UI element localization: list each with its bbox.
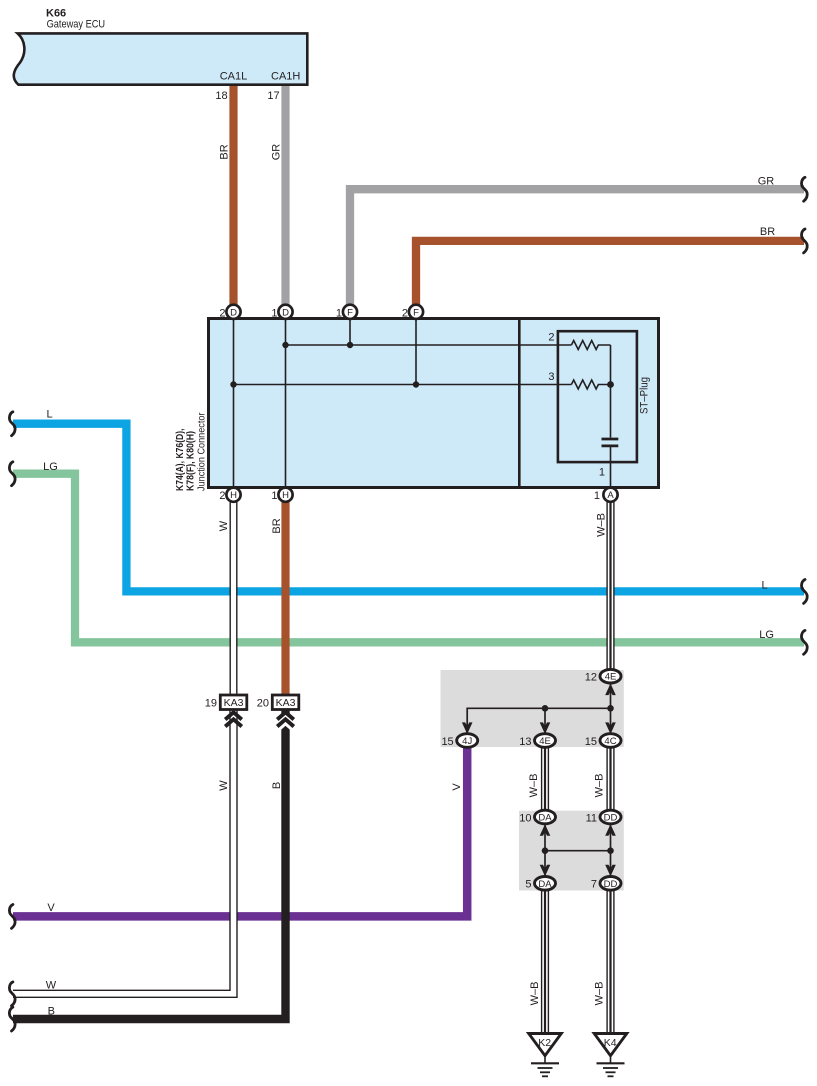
ST-Plug inner box	[558, 331, 637, 462]
svg-text:2: 2	[402, 307, 408, 319]
svg-text:4C: 4C	[604, 736, 616, 747]
off-page end LG right	[801, 630, 807, 654]
wire resistor outputs to capacitor	[610, 345, 612, 438]
svg-text:KA3: KA3	[276, 697, 296, 709]
pin 1(A) bottom	[603, 488, 617, 502]
svg-text:V: V	[451, 783, 463, 791]
junction dot gray block 1 (x=545)	[542, 705, 549, 712]
connector 15(4J)	[457, 734, 478, 748]
connector 13(4E)	[535, 734, 556, 748]
svg-text:K78(F), K80(H): K78(F), K80(H)	[186, 431, 197, 491]
wire W-B from 13(4E) to 10(DA)	[541, 746, 549, 812]
svg-text:Junction Connector: Junction Connector	[197, 412, 208, 491]
svg-text:DD: DD	[604, 879, 618, 890]
ground K4	[594, 1034, 627, 1077]
wire W-B from junction pin 1A to connector 12(4E)	[606, 496, 614, 671]
pin 2(D) top	[226, 305, 240, 319]
svg-text:1: 1	[594, 490, 600, 502]
svg-text:W–B: W–B	[528, 774, 540, 798]
svg-text:K74(A), K76(D),: K74(A), K76(D),	[175, 428, 186, 491]
gray connector block 2 (DA/DD)	[519, 811, 624, 891]
svg-text:11: 11	[586, 812, 597, 824]
connector 15(4C)	[600, 734, 621, 748]
svg-text:17: 17	[267, 90, 279, 102]
svg-text:K2: K2	[538, 1037, 551, 1049]
internal bus wire to resistor 3	[234, 384, 572, 386]
svg-text:V: V	[47, 902, 55, 914]
wire W-B from 5(DA) to ground K2	[541, 889, 549, 1033]
internal wire vertical pin 1D to 1H	[285, 312, 287, 494]
svg-text:B: B	[271, 782, 283, 789]
junction connector divider	[518, 319, 521, 488]
svg-text:DA: DA	[538, 879, 552, 890]
svg-text:2: 2	[219, 307, 225, 319]
wire V (violet) from left edge up to connector 4J	[13, 746, 467, 916]
svg-text:1: 1	[336, 307, 342, 319]
capacitor C (ST-plug)	[602, 439, 619, 446]
junction dot 1F bus	[347, 342, 353, 348]
resistor 3	[571, 380, 610, 389]
off-page end L right	[801, 580, 807, 604]
arrow down into 13(4E)	[540, 722, 551, 734]
junction connector box K74/K76/K78/K80	[209, 319, 659, 488]
svg-text:L: L	[46, 409, 52, 421]
off-page end GR right	[801, 177, 807, 201]
svg-text:K4: K4	[604, 1037, 617, 1049]
wire BR from Gateway ECU pin 18 to junction pin 2D	[229, 84, 237, 310]
svg-text:Gateway ECU: Gateway ECU	[47, 19, 106, 31]
svg-text:B: B	[48, 1006, 55, 1018]
arrow down into 7(DD)	[605, 865, 616, 877]
arrow up into 10(DA)	[540, 824, 551, 836]
gray block 2 bus wire	[545, 850, 611, 852]
connector 7(DD)	[600, 877, 621, 891]
svg-text:15: 15	[441, 736, 453, 748]
gray block 1 bus wire	[467, 708, 610, 735]
junction dot gray block 1 (x=610.5)	[607, 705, 614, 712]
wire B (black) lower segment from KA3 (20) to left edge	[13, 710, 286, 1019]
svg-text:10: 10	[519, 812, 531, 824]
wire W lower segment from KA3 (19) to left edge	[13, 710, 234, 994]
internal wire vertical pin 2D to 2H	[233, 312, 235, 494]
off-page end B left	[9, 1007, 15, 1031]
svg-text:D: D	[230, 307, 237, 318]
gray block 1 internal wire from 12(4E)	[610, 682, 612, 735]
svg-text:1: 1	[271, 307, 277, 319]
wire W-B from 7(DD) to ground K4	[606, 889, 614, 1033]
svg-text:F: F	[413, 307, 419, 318]
svg-text:7: 7	[591, 879, 597, 891]
gray block 2 wire DA column	[544, 822, 546, 878]
gray connector block 1 (4E/4J/4C)	[441, 670, 624, 747]
svg-text:12: 12	[585, 672, 597, 684]
pin 2(H) bottom	[226, 488, 240, 502]
wire LG (light green) from left edge to right edge	[13, 474, 804, 643]
junction dot gray block 2 (x=545)	[542, 847, 549, 854]
svg-text:1: 1	[599, 466, 605, 478]
svg-text:4E: 4E	[605, 672, 617, 683]
internal bus wire to resistor 2	[286, 344, 572, 346]
resistor 2	[571, 341, 610, 350]
svg-text:W: W	[46, 980, 57, 992]
internal wire vertical from pin 2F	[415, 312, 417, 385]
arrow up into 12(4E)	[605, 683, 616, 695]
gray block 2 wire DD column	[610, 822, 612, 878]
svg-text:5: 5	[525, 879, 531, 891]
svg-text:15: 15	[585, 736, 597, 748]
wire BR from junction pin 2F to right edge	[416, 241, 804, 308]
svg-text:LG: LG	[759, 629, 774, 641]
pin 1(H) bottom	[278, 488, 292, 502]
svg-text:CA1H: CA1H	[271, 70, 300, 82]
chevron pair on wire 20 below KA3 (white gaps + black chevrons)	[277, 712, 294, 731]
svg-text:K66: K66	[46, 7, 66, 19]
wire BR from junction pin 1H down to connector KA3 (20)	[281, 496, 289, 696]
svg-text:W: W	[218, 520, 230, 531]
svg-text:H: H	[230, 490, 237, 501]
svg-text:W: W	[218, 780, 230, 791]
svg-text:ST–Plug: ST–Plug	[639, 377, 651, 414]
connector KA3 (19)	[220, 695, 247, 710]
svg-text:LG: LG	[43, 461, 58, 473]
pin 1(F) top	[343, 305, 357, 319]
junction dot 2D bus	[230, 381, 236, 387]
svg-text:1: 1	[271, 490, 277, 502]
svg-text:L: L	[761, 579, 767, 591]
svg-text:KA3: KA3	[224, 697, 244, 709]
connector 12(4E)	[600, 669, 621, 683]
arrow down into 15(4C)	[605, 722, 616, 734]
svg-text:GR: GR	[271, 144, 283, 161]
svg-text:DA: DA	[538, 813, 552, 824]
svg-text:4J: 4J	[462, 736, 472, 747]
svg-text:20: 20	[257, 698, 269, 710]
off-page end W left	[9, 982, 15, 1006]
svg-text:F: F	[347, 307, 353, 318]
svg-text:A: A	[607, 490, 614, 501]
wire capacitor to pin 1A	[610, 446, 612, 494]
internal wire vertical from pin 1F	[349, 312, 351, 345]
Gateway ECU box K66	[14, 33, 308, 84]
junction dot resistor 3 output	[607, 381, 614, 388]
svg-text:18: 18	[215, 90, 227, 102]
connector 11(DD)	[600, 810, 621, 824]
svg-text:W–B: W–B	[594, 774, 606, 798]
arrow down into 15(4J)	[462, 722, 473, 734]
svg-text:W–B: W–B	[594, 982, 606, 1006]
pin 1(D) top	[278, 305, 292, 319]
svg-text:BR: BR	[219, 144, 231, 159]
svg-text:4E: 4E	[539, 736, 551, 747]
wire GR from junction pin 1F to right edge	[350, 189, 804, 308]
off-page end LG left	[9, 462, 15, 486]
svg-text:GR: GR	[758, 175, 775, 187]
off-page end BR right	[801, 229, 807, 253]
connector KA3 (20)	[272, 695, 299, 710]
arrow down into 5(DA)	[540, 865, 551, 877]
svg-text:BR: BR	[271, 518, 283, 533]
svg-text:13: 13	[519, 736, 531, 748]
arrow up into 11(DD)	[605, 824, 616, 836]
chevron pair on wire 19 below KA3	[225, 712, 242, 726]
svg-text:CA1L: CA1L	[220, 70, 248, 82]
off-page end L left	[9, 412, 15, 436]
svg-text:W–B: W–B	[596, 513, 608, 537]
junction dot 2F bus	[413, 381, 419, 387]
off-page end V left	[9, 905, 15, 929]
junction dot gray block 2 (x=610.5)	[607, 847, 614, 854]
svg-text:3: 3	[548, 371, 554, 383]
svg-text:2: 2	[219, 490, 225, 502]
wire W-B from 15(4C) to 11(DD)	[606, 746, 614, 812]
wire L (blue) from left edge to right edge	[13, 424, 804, 592]
connector 5(DA)	[535, 877, 556, 891]
gray block 1 stub to 13(4E)	[544, 708, 546, 735]
wire W from junction pin 2H down to connector KA3 (19)	[230, 496, 238, 696]
svg-text:D: D	[282, 307, 289, 318]
svg-text:H: H	[282, 490, 289, 501]
junction dot 1D bus	[282, 342, 288, 348]
svg-text:W–B: W–B	[529, 982, 541, 1006]
svg-text:19: 19	[205, 698, 217, 710]
svg-text:2: 2	[548, 331, 554, 343]
connector 10(DA)	[535, 810, 556, 824]
svg-text:DD: DD	[604, 813, 618, 824]
svg-text:BR: BR	[760, 226, 775, 238]
wire GR from Gateway ECU pin 17 to junction pin 1D	[281, 84, 289, 310]
pin 2(F) top	[409, 305, 423, 319]
ground K2	[529, 1034, 562, 1077]
